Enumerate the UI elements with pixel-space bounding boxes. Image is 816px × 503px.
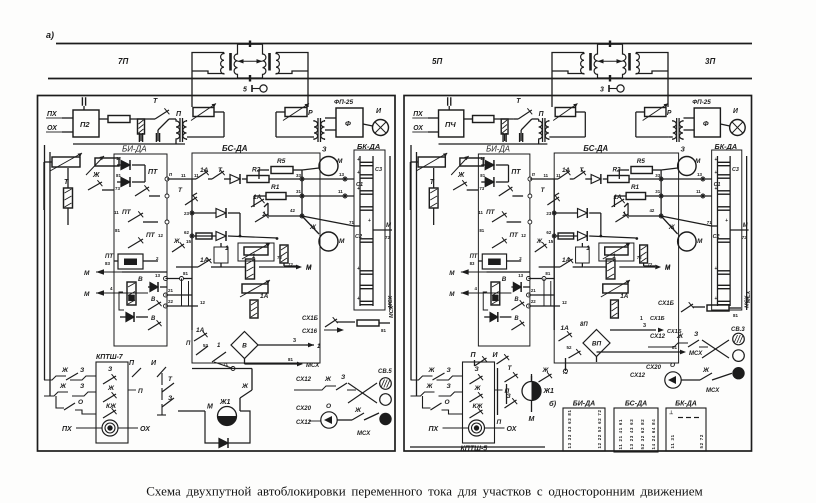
svg-text:8П: 8П (580, 322, 588, 328)
right transformer core (268, 53, 271, 71)
svg-text:МСХ: МСХ (689, 351, 703, 357)
track transformer pair at x=610: left outer loop (552, 53, 584, 108)
svg-text:Ж: Ж (676, 333, 684, 340)
svg-text:КЖ: КЖ (473, 403, 484, 410)
svg-text:Ж: Ж (324, 376, 332, 383)
svg-text:О: О (670, 362, 675, 369)
svg-text:5П: 5П (432, 57, 442, 66)
svg-text:ПХ: ПХ (62, 426, 73, 433)
KPTSh box (96, 362, 128, 443)
svg-text:В: В (242, 343, 247, 350)
svg-text:Ж1: Ж1 (543, 388, 554, 395)
svg-text:О: О (326, 403, 331, 410)
wire row 3->1 (right) (610, 329, 656, 331)
wire P exit right of KPTSh box (128, 389, 136, 391)
svg-text:П: П (138, 388, 143, 395)
resistor MSKh row (left) (357, 320, 379, 326)
svg-text:ВП: ВП (592, 341, 602, 348)
svg-text:ОХ: ОХ (140, 426, 151, 433)
svg-text:СХ20: СХ20 (296, 406, 312, 412)
rail tap tick bottom (609, 75, 611, 82)
svg-text:Ж: Ж (428, 367, 436, 374)
right transformer core (628, 53, 631, 71)
terminal PH-OH (concentric) (469, 420, 485, 436)
svg-text:11 31: 11 31 (670, 434, 675, 448)
svg-text:О: О (445, 399, 450, 406)
svg-text:М: М (529, 416, 535, 423)
svg-text:МСХ: МСХ (746, 291, 752, 303)
svg-text:О: О (78, 399, 83, 406)
terminal PH-OH (concentric) (102, 420, 118, 436)
svg-text:3: 3 (293, 338, 296, 344)
svg-text:СВ.5: СВ.5 (378, 369, 392, 375)
svg-text:Ж: Ж (426, 383, 434, 390)
coupling arrow line (238, 60, 263, 62)
svg-text:МСХ: МСХ (389, 306, 395, 318)
svg-text:а): а) (46, 30, 54, 40)
svg-text:Ж: Ж (354, 407, 362, 414)
svg-text:б): б) (549, 399, 557, 408)
right outer loop (636, 53, 668, 108)
rail tap tick bottom (249, 75, 251, 82)
cross link to signal lamps (left) (348, 383, 377, 403)
left transformer core (589, 53, 592, 71)
svg-text:БС-ДА: БС-ДА (625, 401, 647, 408)
bottom bus right unit (410, 446, 545, 448)
right signal unit (common part, slightly narrower) (404, 96, 751, 452)
svg-text:52 32 62 82: 52 32 62 82 (640, 419, 645, 450)
svg-text:КЖ: КЖ (106, 403, 117, 410)
svg-text:52: 52 (567, 345, 573, 350)
svg-text:1А: 1А (196, 327, 205, 334)
svg-text:СХ16: СХ16 (302, 329, 318, 335)
center bottom link (598, 77, 623, 79)
svg-text:Ж: Ж (59, 383, 67, 390)
svg-text:3: 3 (643, 323, 646, 329)
svg-text:81: 81 (288, 357, 294, 362)
wire P exit right of KPTSh box (495, 389, 503, 391)
vertical feed wires left side (410, 145, 412, 380)
KPTSh box (463, 362, 495, 443)
svg-text:14 24 64 84: 14 24 64 84 (651, 419, 656, 450)
svg-text:Ж1: Ж1 (219, 399, 230, 406)
svg-text:КПТШ-7: КПТШ-7 (96, 354, 124, 361)
left signal unit (common part) (38, 96, 396, 452)
center bottom link (238, 77, 263, 79)
rail tap tick top (249, 41, 251, 48)
dashes inside BK-DA plug (678, 417, 683, 419)
wire 81->MSKh (right) (597, 351, 681, 353)
svg-text:П2: П2 (80, 120, 90, 129)
svg-text:СХ20: СХ20 (646, 365, 662, 371)
svg-text:СХ1Б: СХ1Б (650, 316, 665, 322)
svg-text:81: 81 (733, 313, 739, 318)
svg-text:СХ1Б: СХ1Б (302, 316, 319, 322)
right transformer outer winding (636, 53, 639, 75)
svg-text:ПЧ: ПЧ (445, 120, 456, 129)
svg-text:П: П (186, 341, 191, 347)
svg-text:МСХ: МСХ (706, 388, 720, 394)
rectifier bridge V (left unit) (231, 332, 258, 359)
left transformer outer winding (221, 53, 224, 75)
svg-text:БИ-ДА: БИ-ДА (573, 401, 595, 408)
center top link (598, 43, 623, 45)
rail line 2 (bottom) (48, 78, 752, 80)
svg-text:МСХ: МСХ (306, 363, 320, 369)
left center winding (594, 44, 597, 78)
left transformer outer winding (581, 53, 584, 75)
left center winding (234, 44, 237, 78)
svg-text:П: П (497, 419, 502, 426)
coupling arrow line (598, 60, 623, 62)
svg-text:Ж: Ж (241, 383, 249, 390)
track transformer pair at x=250: left outer loop (192, 53, 224, 108)
resistor MSKh row (right) (707, 305, 729, 311)
left transformer core (229, 53, 232, 71)
right outer loop (276, 53, 308, 108)
svg-text:81: 81 (381, 328, 387, 333)
svg-text:СХ12: СХ12 (650, 334, 666, 340)
rail tap tick top (609, 41, 611, 48)
diode on Zh1 loop bottom (219, 439, 228, 448)
svg-text:Ж: Ж (474, 385, 482, 392)
svg-text:МСХ: МСХ (357, 431, 371, 437)
right center winding (263, 44, 266, 78)
svg-text:7П: 7П (118, 57, 128, 66)
svg-text:СВ.3: СВ.3 (731, 327, 745, 333)
svg-text:⊥: ⊥ (669, 410, 674, 416)
svg-text:13 33 43 63 81: 13 33 43 63 81 (567, 409, 572, 448)
svg-text:ОХ: ОХ (507, 426, 518, 433)
svg-text:11 21 41 61: 11 21 41 61 (618, 419, 623, 450)
svg-text:Ж: Ж (702, 367, 710, 374)
right transformer outer winding (276, 53, 279, 75)
wire row 3->1 (left) (258, 344, 306, 346)
svg-text:Ж: Ж (61, 367, 69, 374)
center top link (238, 43, 263, 45)
svg-text:52 72: 52 72 (699, 434, 704, 449)
right center winding (623, 44, 626, 78)
cross link to signal lamps (right) (702, 340, 729, 358)
svg-text:Ж: Ж (107, 385, 115, 392)
svg-text:БК-ДА: БК-ДА (675, 401, 697, 408)
svg-text:1А: 1А (561, 325, 570, 332)
rail line 1 (top) (56, 43, 752, 45)
svg-text:СХ1Б: СХ1Б (658, 301, 675, 307)
svg-text:13 23 43 63: 13 23 43 63 (629, 419, 634, 450)
svg-text:М: М (207, 404, 213, 411)
wire 81->MSKh (left) (245, 363, 298, 365)
vertical feed wires left side (44, 145, 46, 380)
svg-text:Схема двухпутной автоблокировк: Схема двухпутной автоблокировки переменн… (146, 484, 703, 499)
rectifier bridge VP (right unit) (583, 330, 610, 357)
svg-text:5: 5 (243, 87, 247, 94)
relay Zh1 (track relay, right unit) (522, 382, 541, 401)
svg-text:1: 1 (640, 316, 643, 322)
svg-text:3: 3 (600, 87, 604, 94)
svg-text:ПХ: ПХ (429, 426, 440, 433)
wires to lamps (left) (378, 383, 381, 385)
svg-text:СХ12: СХ12 (630, 373, 646, 379)
svg-text:12 22 52 62 72: 12 22 52 62 72 (597, 409, 602, 448)
svg-text:3П: 3П (705, 57, 715, 66)
svg-text:СХ12: СХ12 (296, 377, 312, 383)
